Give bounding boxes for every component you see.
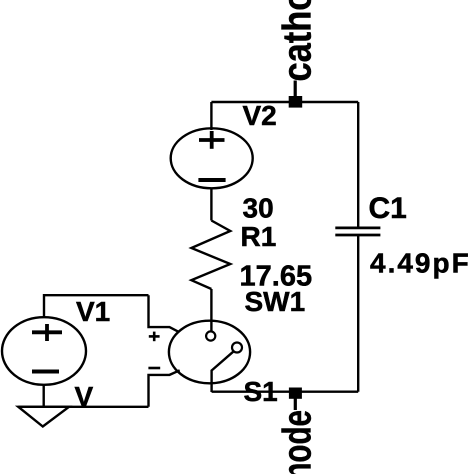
voltage source V2 (171, 128, 253, 188)
wire SW1 minus terminal (149, 370, 180, 407)
node cathode junction (289, 96, 303, 108)
svg-text:V: V (75, 381, 94, 412)
node anode junction (289, 388, 302, 399)
ground symbol (18, 407, 69, 427)
SW1 contact pin 2 (232, 343, 242, 353)
switch SW1 body (169, 321, 250, 384)
SW1 minus terminal label (148, 367, 160, 370)
wire C1 bottom (357, 235, 359, 392)
wire top horizontal (V2 to C1) (211, 101, 358, 103)
node anode stub (294, 398, 297, 410)
V2 minus sign (198, 178, 225, 182)
wire SW1 plus terminal (149, 295, 179, 332)
svg-text:R1: R1 (241, 221, 277, 252)
SW1 plus terminal label (149, 332, 160, 342)
capacitor C1 bottom plate (335, 234, 380, 237)
svg-text:cathode: cathode (274, 0, 319, 82)
svg-text:30: 30 (243, 193, 274, 224)
svg-text:4.49pF: 4.49pF (370, 248, 471, 279)
svg-text:S1: S1 (244, 376, 278, 407)
net label anode (275, 410, 319, 474)
wire V2 to R1 (210, 188, 212, 220)
wire R1 to SW1 (210, 289, 212, 332)
node cathode stub (294, 81, 297, 103)
svg-text:SW1: SW1 (245, 286, 306, 317)
voltage source V1 (2, 317, 86, 385)
svg-text:C1: C1 (369, 192, 407, 225)
svg-text:V2: V2 (243, 100, 277, 131)
wire V2 top stub (210, 102, 212, 130)
SW1 lever arm (212, 351, 234, 392)
wire C1 top (357, 102, 359, 227)
capacitor C1 top plate (335, 226, 380, 229)
ground wire horizontal (18, 406, 148, 408)
resistor R1 (191, 221, 230, 290)
V1 plus sign (32, 324, 62, 341)
wire V1 top (44, 295, 149, 317)
svg-text:V1: V1 (76, 296, 110, 327)
V2 plus sign (199, 131, 225, 149)
net label cathode (274, 0, 319, 82)
wire V1 bottom to ground (43, 385, 45, 407)
wire bottom horizontal (SW1 to C1) (212, 391, 359, 393)
V1 minus sign (32, 370, 59, 374)
SW1 contact pin 1 (206, 331, 215, 340)
svg-text:anode: anode (275, 410, 319, 474)
